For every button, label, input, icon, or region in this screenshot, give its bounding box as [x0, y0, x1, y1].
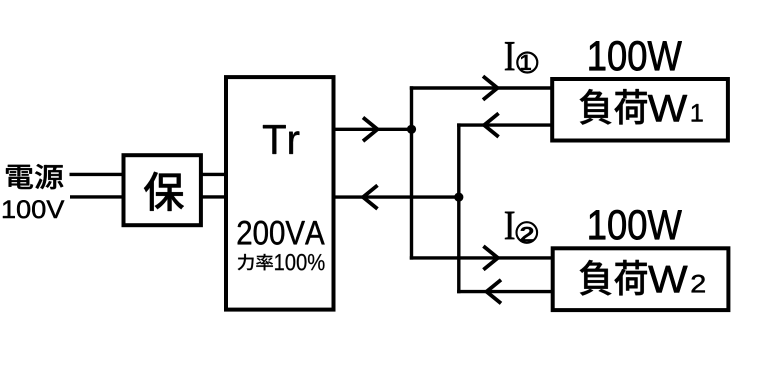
label: subscript 2 of W2 — [692, 275, 705, 293]
label: Tr (transformer) — [263, 125, 299, 154]
load box W2 — [553, 248, 729, 310]
node: junction dot on bus 1 — [407, 125, 416, 134]
label: W of load W1 — [648, 95, 687, 122]
protective device box 保 — [124, 155, 201, 225]
label: 100W rating of load W2 — [590, 210, 682, 240]
label: subscript 1 of W1 — [692, 104, 703, 121]
label: 負荷 (load) in box W1 — [580, 89, 647, 125]
label: W of load W2 — [648, 266, 687, 293]
wire: to load W1 top — [410, 86, 552, 89]
label: current I2 symbol I — [505, 212, 514, 239]
transformer box Tr — [226, 77, 334, 310]
arrow: current direction left on secondary bottom — [363, 185, 378, 209]
wire: Tr secondary bottom return — [334, 195, 461, 198]
arrow: current direction right on secondary top — [363, 118, 378, 142]
label: 100% — [275, 254, 324, 270]
label: 負荷 (load) in box W2 — [580, 260, 647, 296]
wire: from load W1 bottom — [457, 123, 552, 126]
arrow: current I1 right — [483, 76, 498, 100]
wire: source line bottom — [70, 195, 124, 198]
node: junction dot on bus 2 — [454, 193, 463, 202]
label: current I1 symbol I — [505, 42, 514, 70]
label: 100W rating of load W1 — [590, 41, 682, 71]
wire: Tr secondary top output — [334, 128, 414, 131]
wire: 保 to Tr top — [201, 173, 226, 176]
arrow: current I2 return left — [487, 280, 502, 304]
label: 200VA rating — [238, 221, 325, 245]
label: 力率 (power factor) — [238, 254, 273, 271]
load box W1 — [552, 79, 728, 141]
label: 保 (protector) inside box — [144, 172, 184, 211]
label: 100V — [3, 200, 64, 218]
label: circled 1 of current I1 — [517, 53, 537, 73]
arrow: current I1 return left — [484, 113, 499, 137]
arrow: current I2 right — [483, 246, 498, 270]
wire: vertical bus 2 — [457, 123, 460, 293]
wire: vertical bus 1 — [410, 86, 413, 259]
label: circled 2 of current I2 — [517, 222, 538, 243]
label: 電源 (power source) — [6, 164, 63, 189]
wire: from load W2 bottom — [457, 290, 553, 293]
wire: source line top — [70, 173, 124, 176]
wire: to load W2 top — [410, 256, 553, 259]
wire: 保 to Tr bottom — [201, 195, 226, 198]
